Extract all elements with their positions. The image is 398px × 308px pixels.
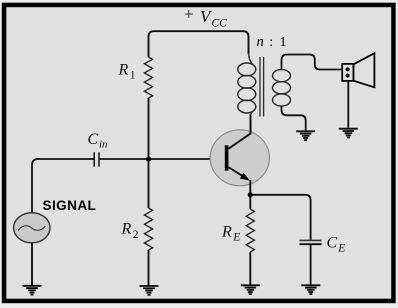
transistor emitter line with arrow [228,167,248,179]
wire: R2 to ground [148,250,150,286]
svg-text:E: E [232,232,240,244]
svg-text:n: n [257,34,264,50]
node: base junction dot [146,156,151,161]
resistor R2 [144,208,152,250]
resistor R1 [144,57,152,98]
transformer secondary winding [273,70,291,82]
speaker driver box [342,64,353,81]
wire: signal source to Cin left plate [32,159,94,213]
svg-text:1: 1 [130,70,136,82]
capacitor Cin plates [93,152,95,166]
wire: speaker to ground [347,81,349,129]
wire: signal source to ground [31,243,33,286]
svg-text:R: R [121,221,132,238]
speaker terminal dots [346,67,350,71]
node: emitter junction dot [248,192,253,197]
svg-text:C: C [88,131,99,148]
transformer primary winding [249,53,253,64]
wire: emitter to node [249,180,251,195]
svg-text:R: R [118,62,129,79]
sine wave inside source [18,226,45,231]
ground below signal [23,285,42,287]
wire: secondary bottom to ground [282,106,306,131]
wire: secondary top to speaker [282,55,343,70]
wire: R1 bottom through base node down to R2 top [148,98,150,208]
wire: Ce to ground [310,244,312,285]
ground below RE [241,284,260,286]
wire: node to Re top [249,195,251,209]
svg-text:SIGNAL: SIGNAL [43,198,97,213]
wire: RE to ground [249,252,251,285]
speaker cone [354,53,375,87]
capacitor Ce plates [300,239,322,241]
svg-text:C: C [327,235,338,252]
ground below Ce [301,284,320,286]
svg-text::: : [269,35,273,50]
wire: node to Ce [250,195,310,240]
svg-text:in: in [99,139,108,151]
ground below speaker [339,128,358,130]
wire: base node to transistor base [99,158,225,160]
svg-text:+: + [184,5,194,24]
svg-text:R: R [221,224,232,241]
svg-text:1: 1 [280,35,287,50]
transistor collector line [228,114,250,149]
svg-text:E: E [337,243,345,255]
wire: primary bottom to collector [250,115,252,134]
svg-text:2: 2 [133,229,139,241]
signal source AC [14,213,50,243]
ground below R2 [140,285,159,287]
wire: Vcc rail from R1 top to transformer primary [149,31,249,57]
ground below secondary [296,130,315,132]
transformer core [259,57,261,117]
transistor Q1 body circle [210,130,269,186]
svg-text:CC: CC [212,18,228,30]
resistor RE [246,209,254,252]
transistor base bar [225,145,229,170]
